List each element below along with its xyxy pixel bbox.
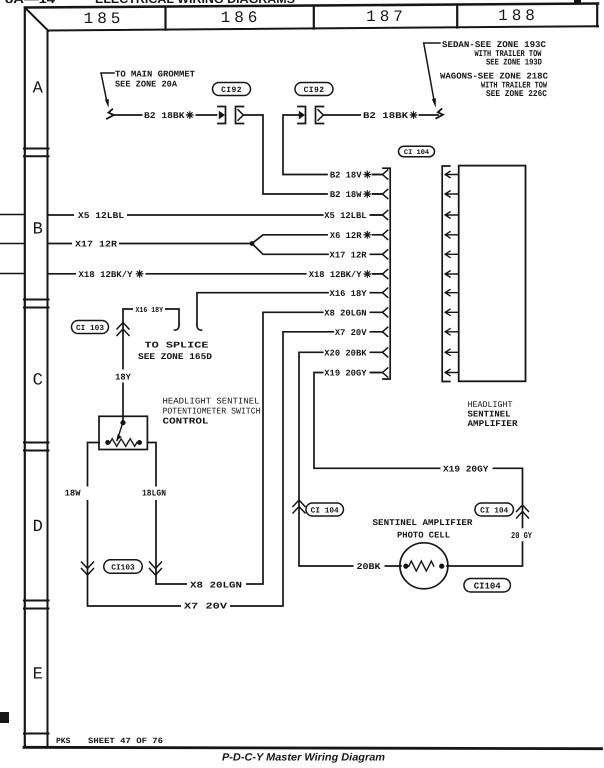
svg-text:A: A: [33, 80, 44, 99]
svg-text:18Y: 18Y: [115, 373, 132, 383]
svg-text:CONTROL: CONTROL: [163, 417, 209, 427]
svg-text:X18 12BK/Y: X18 12BK/Y: [79, 270, 134, 280]
svg-text:X18 12BK/Y: X18 12BK/Y: [309, 270, 363, 280]
svg-text:CI103: CI103: [111, 563, 135, 572]
svg-text:SEE ZONE 193D: SEE ZONE 193D: [486, 58, 542, 68]
svg-text:C: C: [33, 372, 43, 391]
svg-text:TO SPLICE: TO SPLICE: [145, 341, 209, 351]
svg-text:P-D-C-Y Master Wiring Diagram: P-D-C-Y Master Wiring Diagram: [222, 751, 385, 763]
svg-text:X8 20LGN: X8 20LGN: [190, 581, 242, 591]
svg-text:18LGN: 18LGN: [142, 488, 166, 498]
svg-text:186: 186: [221, 9, 262, 27]
svg-text:20BK: 20BK: [357, 562, 382, 572]
svg-text:POTENTIOMETER SWITCH: POTENTIOMETER SWITCH: [163, 407, 261, 417]
svg-text:X16 18Y: X16 18Y: [136, 306, 164, 315]
svg-text:SHEET 47 OF 76: SHEET 47 OF 76: [88, 737, 163, 746]
svg-text:PHOTO CELL: PHOTO CELL: [397, 530, 450, 540]
svg-text:185: 185: [84, 10, 125, 28]
svg-text:B: B: [33, 221, 43, 240]
svg-text:PKS: PKS: [56, 737, 71, 746]
svg-text:X5 12LBL: X5 12LBL: [324, 211, 366, 221]
svg-text:B2 18BK: B2 18BK: [144, 111, 185, 121]
svg-text:SENTINEL AMPLIFIER: SENTINEL AMPLIFIER: [373, 518, 474, 528]
svg-text:TO MAIN GROMMET: TO MAIN GROMMET: [115, 70, 196, 80]
svg-text:CI 103: CI 103: [76, 324, 104, 333]
svg-text:X17 12R: X17 12R: [330, 250, 368, 260]
svg-text:B2 18W: B2 18W: [330, 190, 362, 200]
svg-text:SEE ZONE 226C: SEE ZONE 226C: [486, 89, 548, 99]
svg-text:X17 12R: X17 12R: [75, 240, 118, 250]
svg-text:SEE ZONE 20A: SEE ZONE 20A: [115, 79, 178, 89]
svg-text:20 GY: 20 GY: [511, 531, 533, 541]
svg-text:HEADLIGHT SENTINEL: HEADLIGHT SENTINEL: [163, 397, 260, 407]
svg-text:D: D: [33, 518, 43, 537]
svg-text:187: 187: [366, 8, 407, 26]
svg-text:X20 20BK: X20 20BK: [324, 348, 367, 358]
svg-text:X7 20V: X7 20V: [184, 602, 228, 612]
svg-text:X6 12R: X6 12R: [330, 231, 362, 241]
svg-text:CI92: CI92: [221, 86, 242, 95]
svg-text:X16 18Y: X16 18Y: [330, 289, 368, 299]
svg-text:X8 20LGN: X8 20LGN: [324, 308, 366, 318]
svg-text:18W: 18W: [65, 488, 82, 498]
svg-text:CI 104: CI 104: [404, 149, 429, 157]
svg-text:X19 20GY: X19 20GY: [324, 369, 367, 379]
svg-text:HEADLIGHT: HEADLIGHT: [468, 400, 513, 410]
svg-text:CI92: CI92: [304, 86, 325, 95]
svg-text:CI 104: CI 104: [311, 506, 339, 515]
svg-text:8A—14: 8A—14: [5, 0, 55, 6]
svg-text:B2 18BK: B2 18BK: [363, 111, 409, 121]
svg-text:X7 20V: X7 20V: [335, 328, 367, 338]
svg-text:X5 12LBL: X5 12LBL: [78, 211, 124, 221]
svg-text:CI104: CI104: [474, 581, 502, 591]
svg-text:AMPLIFIER: AMPLIFIER: [468, 419, 519, 429]
svg-text:X19 20GY: X19 20GY: [443, 464, 489, 474]
svg-text:CI 104: CI 104: [480, 506, 508, 515]
svg-text:SEE ZONE 165D: SEE ZONE 165D: [138, 352, 212, 362]
svg-text:188: 188: [498, 7, 539, 25]
svg-text:SENTINEL: SENTINEL: [468, 409, 511, 419]
svg-text:B2 18V: B2 18V: [330, 171, 362, 181]
svg-text:E: E: [33, 666, 43, 685]
